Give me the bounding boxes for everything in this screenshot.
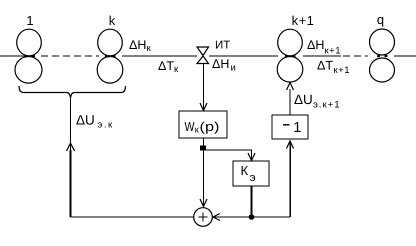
svg-text:и: и <box>231 63 236 74</box>
svg-text:W: W <box>185 119 196 134</box>
svg-text:1: 1 <box>293 120 301 136</box>
svg-text:k+1: k+1 <box>292 13 315 28</box>
svg-text:ΔН: ΔН <box>212 57 229 71</box>
svg-text:ΔН: ΔН <box>129 38 146 52</box>
svg-text:k: k <box>109 13 116 28</box>
svg-text:ΔU: ΔU <box>76 113 95 128</box>
svg-text:ИТ: ИТ <box>215 40 230 52</box>
svg-text:ΔU: ΔU <box>294 92 313 107</box>
svg-text:э.к: э.к <box>98 120 114 131</box>
svg-text:q: q <box>377 12 384 27</box>
svg-text:ΔН: ΔН <box>307 38 324 52</box>
svg-text:(р): (р) <box>200 119 220 134</box>
svg-text:ΔТ: ΔТ <box>158 59 174 73</box>
svg-text:1: 1 <box>26 13 33 28</box>
svg-text:э.к+1: э.к+1 <box>313 100 340 111</box>
svg-text:К: К <box>241 163 249 178</box>
svg-text:к+1: к+1 <box>325 46 342 57</box>
svg-text:э: э <box>250 172 256 184</box>
svg-text:к: к <box>195 125 199 135</box>
svg-text:к+1: к+1 <box>334 65 351 76</box>
svg-text:ΔТ: ΔТ <box>317 59 333 73</box>
